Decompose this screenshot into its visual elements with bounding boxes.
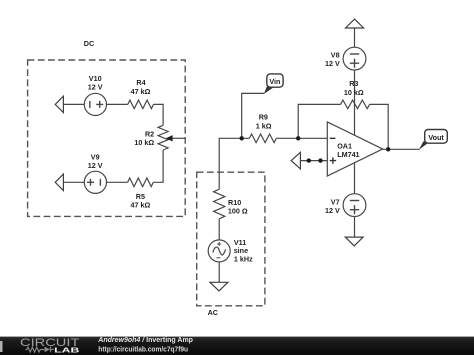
svg-text:R9: R9 bbox=[259, 113, 268, 122]
svg-text:http://circuitlab.com/c7q7f9u: http://circuitlab.com/c7q7f9u bbox=[98, 344, 188, 353]
svg-text:LAB: LAB bbox=[54, 345, 79, 354]
svg-text:12 V: 12 V bbox=[325, 206, 340, 215]
svg-text:12 V: 12 V bbox=[88, 161, 103, 170]
svg-text:47 kΩ: 47 kΩ bbox=[131, 87, 151, 96]
svg-text:DC: DC bbox=[84, 39, 94, 48]
svg-text:12 V: 12 V bbox=[325, 59, 340, 68]
svg-text:1 kHz: 1 kHz bbox=[234, 255, 253, 264]
svg-text:12 V: 12 V bbox=[88, 82, 103, 91]
svg-text:47 kΩ: 47 kΩ bbox=[131, 200, 151, 209]
svg-text:100 Ω: 100 Ω bbox=[228, 206, 248, 215]
svg-text:AC: AC bbox=[208, 308, 218, 317]
svg-text:R4: R4 bbox=[136, 78, 145, 87]
svg-text:LM741: LM741 bbox=[337, 150, 359, 159]
svg-text:10 kΩ: 10 kΩ bbox=[344, 88, 364, 97]
svg-text:Vout: Vout bbox=[428, 133, 444, 142]
svg-text:Andrew9oh4 / Inverting Amp: Andrew9oh4 / Inverting Amp bbox=[97, 337, 193, 344]
svg-text:Vin: Vin bbox=[269, 77, 280, 86]
svg-text:10 kΩ: 10 kΩ bbox=[134, 138, 154, 147]
svg-text:1 kΩ: 1 kΩ bbox=[256, 121, 272, 130]
